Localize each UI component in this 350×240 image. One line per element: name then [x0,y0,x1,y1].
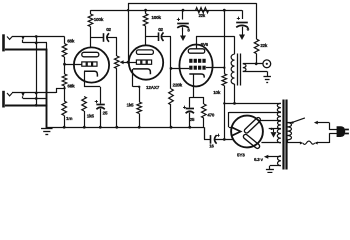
svg-text:12AX7: 12AX7 [146,85,160,90]
svg-text:6V6: 6V6 [201,42,209,47]
svg-text:220k: 220k [173,82,183,87]
svg-text:02: 02 [158,27,163,32]
svg-text:100k: 100k [151,15,161,20]
svg-text:10k: 10k [213,90,221,95]
svg-text:1k5: 1k5 [127,102,134,107]
svg-text:25: 25 [190,117,195,122]
svg-text:22k: 22k [260,43,267,48]
svg-text:16: 16 [209,143,214,148]
svg-text:1k5: 1k5 [87,114,95,119]
svg-text:68k: 68k [67,39,75,44]
svg-text:100k: 100k [94,17,104,22]
svg-text:22k: 22k [199,13,206,18]
svg-text:470: 470 [207,113,214,118]
svg-text:02: 02 [106,27,111,32]
svg-text:68k: 68k [67,83,75,88]
svg-text:25: 25 [103,111,108,116]
svg-text:6.3 v: 6.3 v [254,157,264,162]
svg-text:5Y3: 5Y3 [237,152,245,157]
svg-text:1m: 1m [66,116,72,121]
